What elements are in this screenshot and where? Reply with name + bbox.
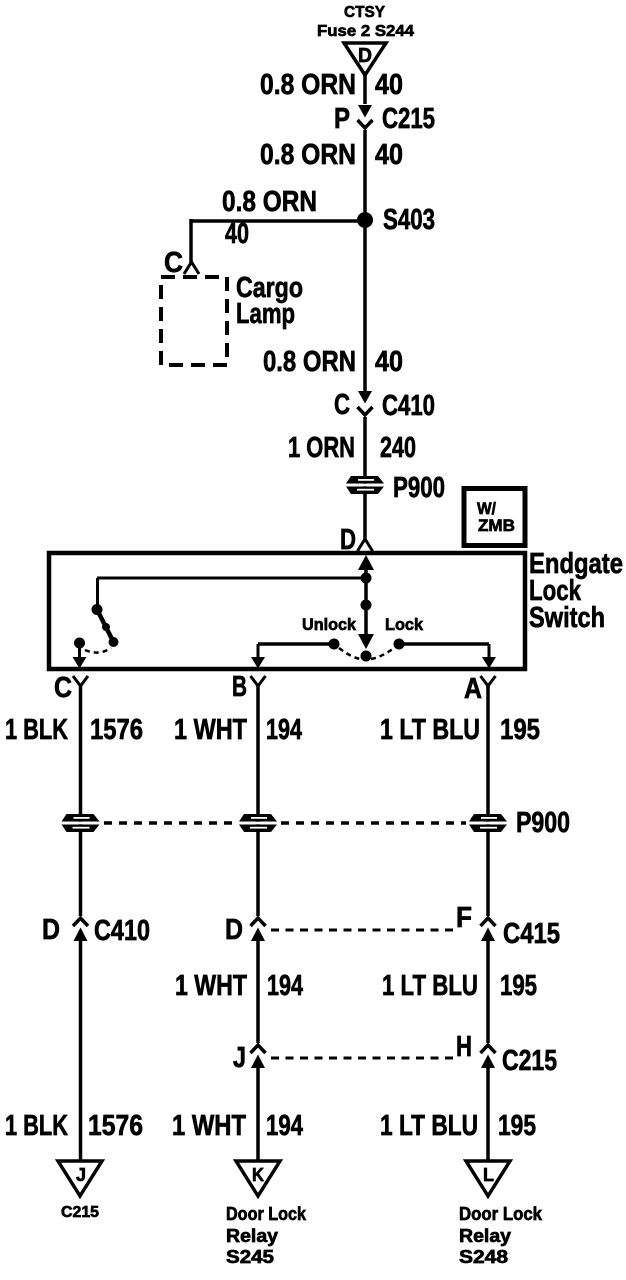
svg-text:Switch: Switch xyxy=(529,602,605,634)
svg-text:1 LT BLU: 1 LT BLU xyxy=(380,1110,478,1142)
svg-text:194: 194 xyxy=(267,970,303,1002)
svg-text:40: 40 xyxy=(375,346,403,378)
svg-text:P900: P900 xyxy=(393,472,445,504)
svg-text:C: C xyxy=(164,247,183,279)
svg-text:P900: P900 xyxy=(516,807,570,839)
svg-text:P: P xyxy=(334,103,350,135)
svg-text:J: J xyxy=(76,1165,86,1185)
svg-text:D: D xyxy=(42,914,60,946)
svg-text:J: J xyxy=(233,1042,246,1074)
svg-text:1 WHT: 1 WHT xyxy=(172,1110,246,1142)
svg-text:D: D xyxy=(225,914,243,946)
svg-text:A: A xyxy=(464,673,482,705)
svg-text:ZMB: ZMB xyxy=(478,516,515,535)
svg-text:1 ORN: 1 ORN xyxy=(288,432,355,464)
svg-text:195: 195 xyxy=(500,714,540,746)
svg-text:1 LT BLU: 1 LT BLU xyxy=(380,714,480,746)
svg-text:Lamp: Lamp xyxy=(236,298,295,330)
svg-text:240: 240 xyxy=(380,432,416,464)
svg-text:194: 194 xyxy=(266,1110,303,1142)
svg-text:0.8 ORN: 0.8 ORN xyxy=(260,139,356,171)
svg-text:Door Lock: Door Lock xyxy=(226,1204,307,1224)
svg-text:K: K xyxy=(252,1165,264,1185)
svg-text:D: D xyxy=(358,45,372,67)
svg-text:Lock: Lock xyxy=(385,615,424,634)
svg-text:1576: 1576 xyxy=(88,1110,143,1142)
svg-text:C: C xyxy=(334,389,350,421)
svg-text:CTSY: CTSY xyxy=(344,4,385,21)
svg-text:40: 40 xyxy=(375,139,403,171)
svg-text:C410: C410 xyxy=(382,390,435,422)
svg-text:Unlock: Unlock xyxy=(302,615,357,634)
svg-text:H: H xyxy=(456,1031,472,1063)
svg-text:L: L xyxy=(483,1165,494,1185)
svg-text:1 WHT: 1 WHT xyxy=(174,714,247,746)
svg-text:1 BLK: 1 BLK xyxy=(5,714,68,746)
svg-text:1576: 1576 xyxy=(90,714,143,746)
svg-text:C: C xyxy=(54,672,72,704)
svg-text:C415: C415 xyxy=(503,918,560,950)
svg-text:0.8 ORN: 0.8 ORN xyxy=(263,346,356,378)
svg-text:40: 40 xyxy=(225,218,249,250)
svg-text:C215: C215 xyxy=(61,1204,99,1221)
svg-text:195: 195 xyxy=(500,970,537,1002)
svg-text:194: 194 xyxy=(266,714,302,746)
svg-text:1 LT BLU: 1 LT BLU xyxy=(382,970,478,1002)
svg-text:S245: S245 xyxy=(226,1247,274,1267)
svg-text:Relay: Relay xyxy=(459,1226,511,1246)
svg-text:B: B xyxy=(232,671,247,703)
svg-text:40: 40 xyxy=(375,69,403,101)
svg-text:1 BLK: 1 BLK xyxy=(5,1110,68,1142)
svg-text:S403: S403 xyxy=(383,204,435,236)
svg-text:Fuse 2 S244: Fuse 2 S244 xyxy=(317,23,414,40)
svg-text:C410: C410 xyxy=(94,915,150,947)
svg-text:Relay: Relay xyxy=(226,1226,278,1246)
svg-text:S248: S248 xyxy=(459,1247,508,1267)
svg-text:195: 195 xyxy=(498,1110,536,1142)
svg-text:1 WHT: 1 WHT xyxy=(175,970,247,1002)
svg-text:0.8 ORN: 0.8 ORN xyxy=(222,186,317,218)
svg-text:C215: C215 xyxy=(502,1045,557,1077)
svg-text:0.8 ORN: 0.8 ORN xyxy=(260,69,356,101)
svg-text:Door Lock: Door Lock xyxy=(459,1204,543,1224)
svg-text:C215: C215 xyxy=(382,103,435,135)
svg-text:F: F xyxy=(456,902,472,934)
